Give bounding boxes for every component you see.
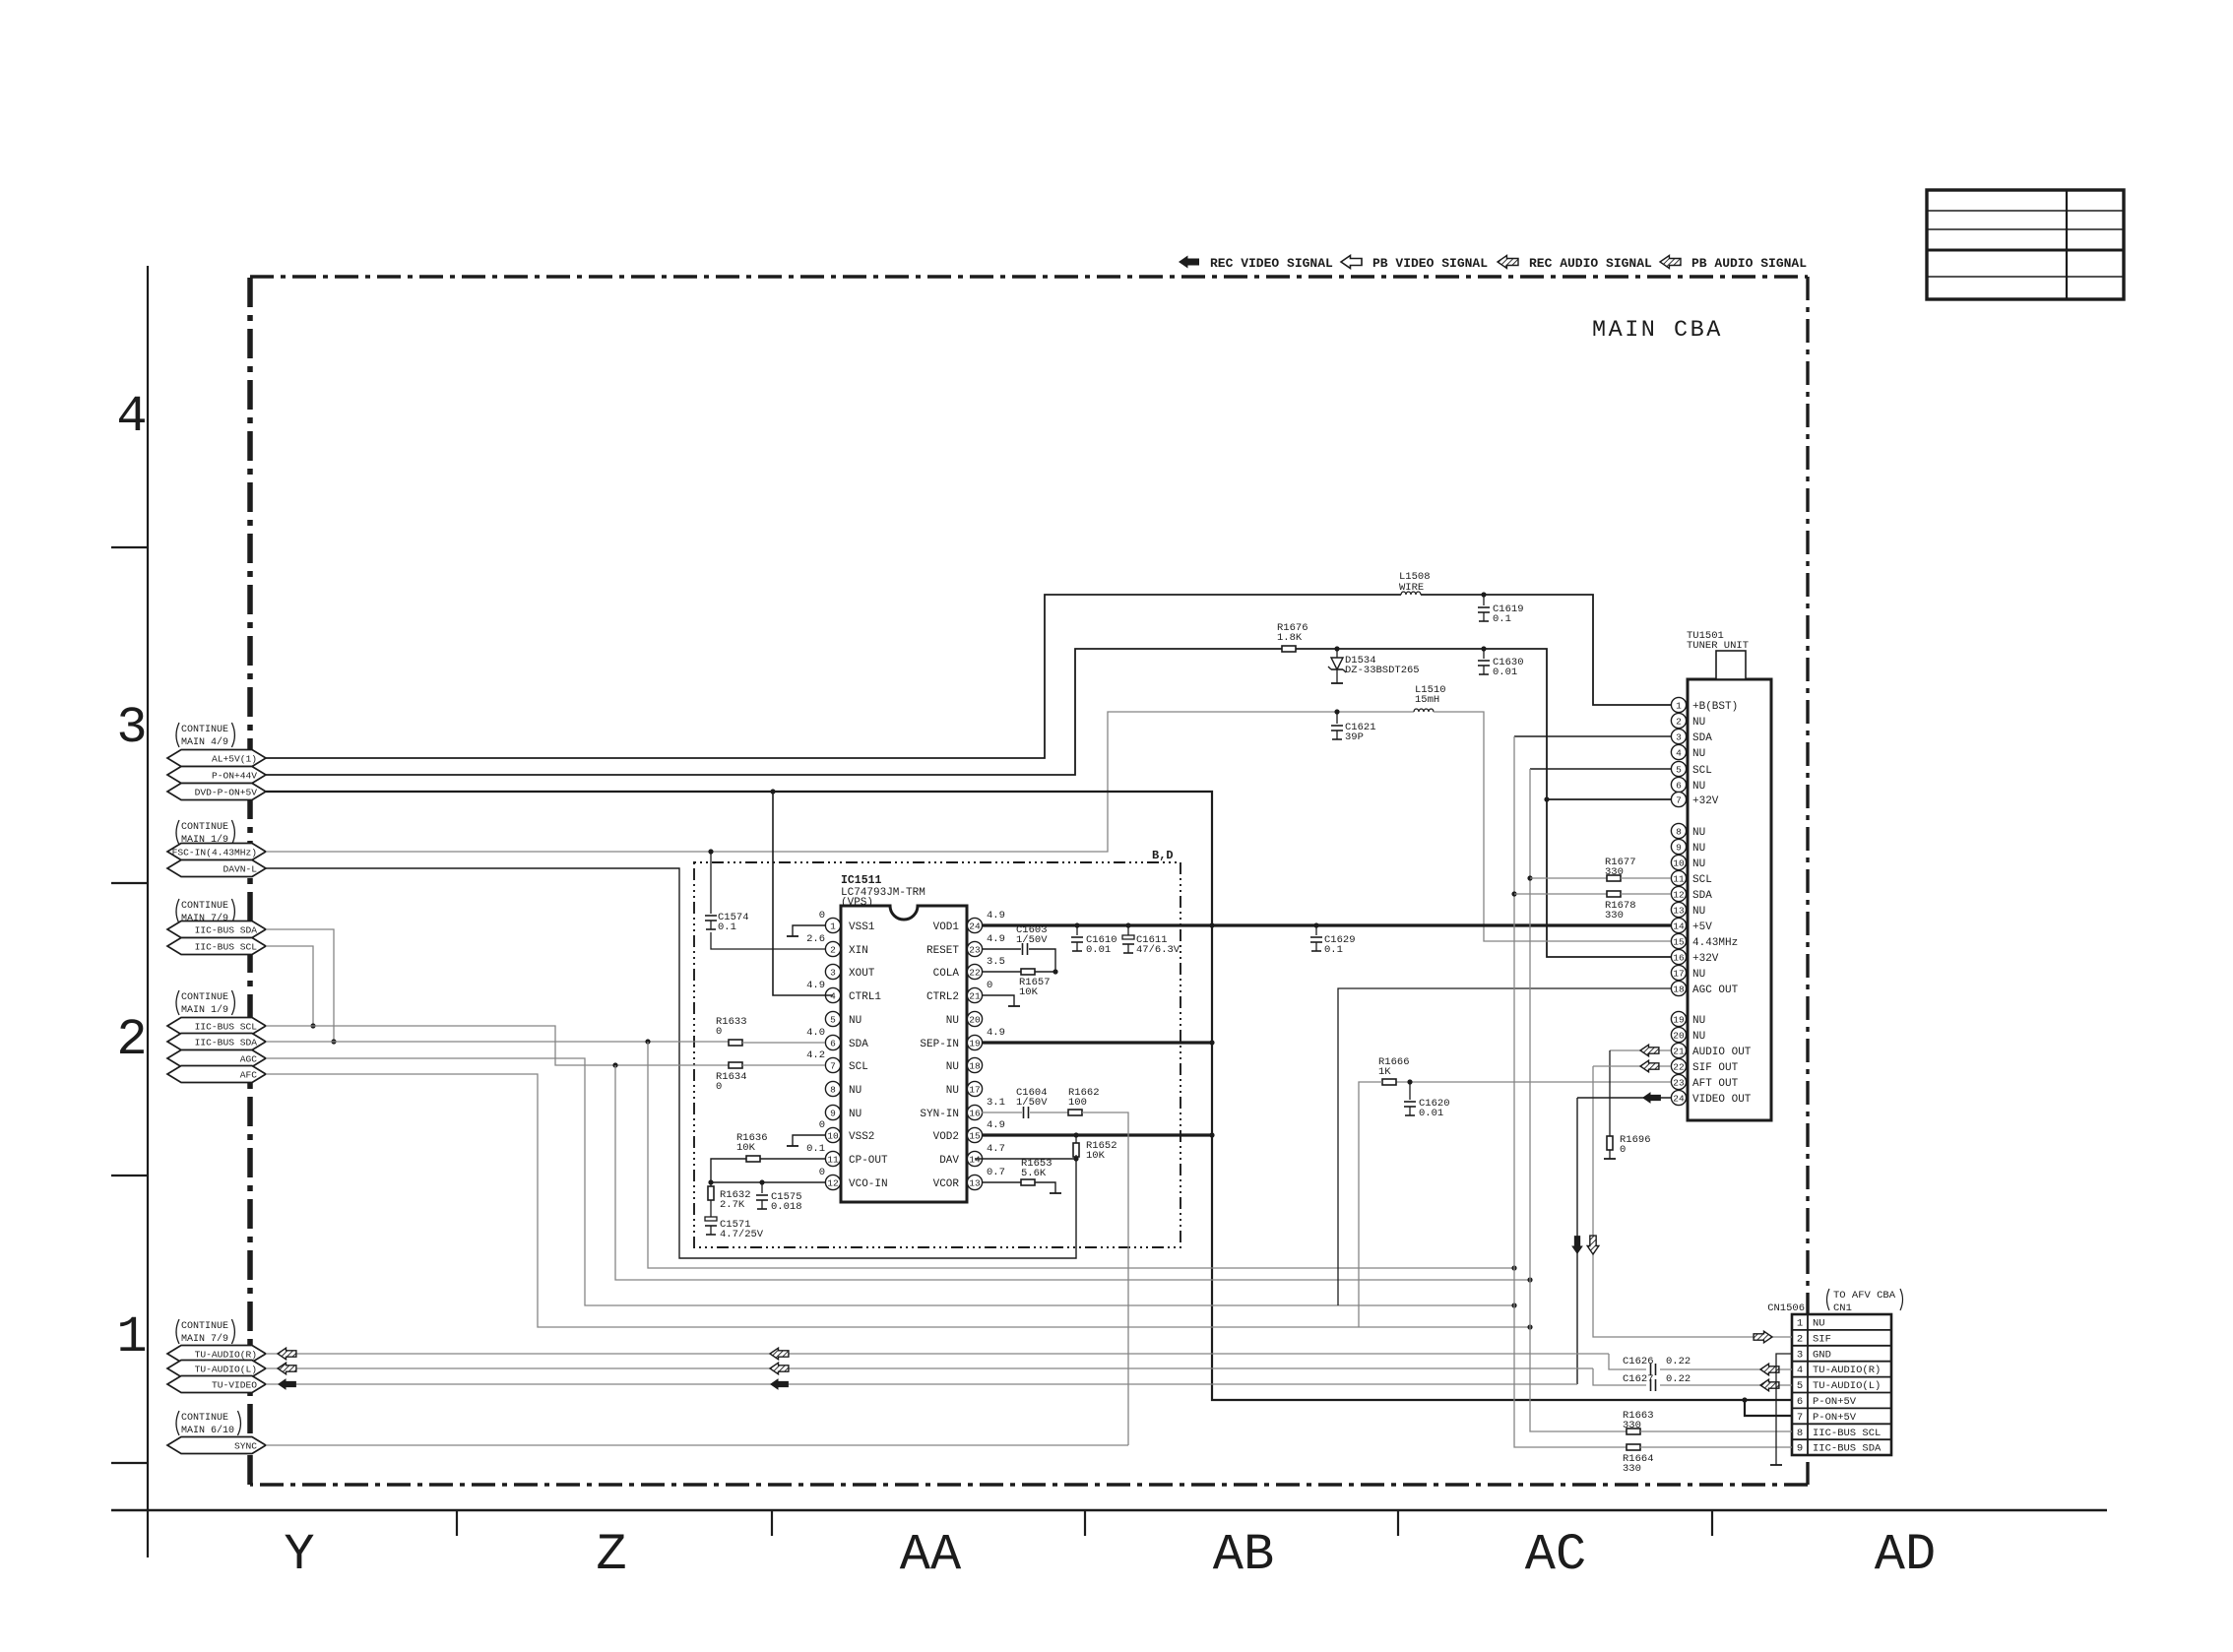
- svg-text:0.018: 0.018: [771, 1201, 802, 1213]
- connector CN1506 table: [1792, 1314, 1891, 1455]
- svg-text:4.7: 4.7: [987, 1143, 1005, 1155]
- svg-text:(VPS): (VPS): [841, 897, 873, 909]
- capacitor C1611: [1122, 935, 1134, 939]
- TU1501 pin 20 NU: [1680, 1034, 1687, 1036]
- ground below D1534: [1331, 682, 1343, 684]
- svg-text:NU: NU: [946, 1085, 959, 1097]
- resistor R1676: [1282, 646, 1296, 652]
- node C1575 junction: [759, 1179, 764, 1184]
- svg-text:14: 14: [969, 1154, 981, 1165]
- svg-text:AFC: AFC: [240, 1070, 258, 1081]
- svg-text:3: 3: [1676, 731, 1682, 742]
- svg-text:10: 10: [1673, 858, 1685, 868]
- svg-text:4.43MHz: 4.43MHz: [1692, 937, 1738, 949]
- svg-text:VSS2: VSS2: [849, 1131, 874, 1143]
- node SDA flag junction: [331, 1039, 336, 1044]
- wire IIC-BUS SCL upper flag link: [266, 946, 313, 1026]
- svg-text:CONTINUE: CONTINUE: [181, 1321, 228, 1332]
- wire C1603 to COLA node: [1029, 949, 1055, 972]
- svg-text:IIC-BUS SCL: IIC-BUS SCL: [195, 942, 258, 953]
- wire IIC-BUS SDA flag to IC pin 6: [266, 1041, 729, 1043]
- resistor R1696: [1609, 1050, 1611, 1137]
- svg-text:7: 7: [1797, 1412, 1803, 1424]
- flag DVD-P-ON+5V: [167, 784, 266, 800]
- wire SDA drop to bus: [648, 1042, 1514, 1268]
- svg-text:0.01: 0.01: [1086, 944, 1111, 956]
- TU1501 pin 3 SDA: [1680, 735, 1687, 737]
- wire L1510 to tuner 4.43MHz pin 15: [1434, 712, 1671, 941]
- svg-text:NU: NU: [1692, 748, 1705, 760]
- svg-text:4.9: 4.9: [987, 1119, 1005, 1131]
- svg-text:DZ-33BSDT265: DZ-33BSDT265: [1345, 665, 1420, 676]
- svg-text:9: 9: [830, 1108, 836, 1118]
- svg-text:AGC OUT: AGC OUT: [1692, 985, 1739, 996]
- svg-text:NU: NU: [1692, 906, 1705, 918]
- node +32V pins 7/16 junction: [1544, 796, 1549, 801]
- IC1511 pin 15 VOD2: [967, 1134, 975, 1136]
- TU1501 pin 13 NU: [1680, 909, 1687, 911]
- svg-text:MAIN CBA: MAIN CBA: [1592, 317, 1723, 344]
- node FSC branch C1574: [708, 849, 713, 854]
- node SCL drop junction: [612, 1062, 617, 1067]
- svg-text:10K: 10K: [736, 1142, 756, 1154]
- ground below R1696: [1604, 1158, 1616, 1160]
- wire C1619 stem: [1483, 595, 1485, 605]
- capacitor C1571: [705, 1217, 717, 1221]
- node D1534 junction: [1334, 646, 1339, 651]
- border tick row 4/3: [111, 546, 148, 548]
- svg-text:AB: AB: [1213, 1526, 1274, 1584]
- svg-text:SDA: SDA: [1692, 732, 1712, 744]
- svg-text:23: 23: [1673, 1077, 1685, 1088]
- wire SCL drop to bus: [615, 1065, 1530, 1280]
- wire tuner SDA pin 12 through R1678: [1514, 893, 1607, 895]
- wire AGC flag run: [266, 1058, 1514, 1305]
- node C1629: [1313, 922, 1318, 927]
- svg-text:VOD2: VOD2: [933, 1131, 959, 1143]
- svg-text:7: 7: [830, 1060, 836, 1071]
- svg-text:SCL: SCL: [849, 1061, 868, 1073]
- capacitor C1629: [1310, 936, 1322, 938]
- wire COLA pin 22 through R1657: [982, 971, 1021, 973]
- svg-text:CONTINUE: CONTINUE: [181, 992, 228, 1003]
- svg-text:15: 15: [969, 1130, 981, 1141]
- resistor R1666: [1382, 1079, 1396, 1085]
- svg-text:16: 16: [969, 1108, 981, 1118]
- svg-text:4.9: 4.9: [987, 933, 1005, 945]
- flag AGC: [167, 1050, 266, 1067]
- wire tuner SCL pin 11 through R1677: [1530, 877, 1607, 879]
- svg-text:2: 2: [830, 944, 836, 955]
- wire VCO-IN pin 12: [711, 1181, 825, 1183]
- svg-text:DAVN-L: DAVN-L: [223, 864, 257, 875]
- wire SYNC flag line: [266, 1444, 1128, 1446]
- svg-text:AC: AC: [1525, 1526, 1586, 1584]
- svg-text:2.6: 2.6: [806, 933, 825, 945]
- svg-text:1.8K: 1.8K: [1277, 632, 1303, 644]
- wire AFC flag run: [266, 1074, 1530, 1327]
- svg-text:MAIN 6/10: MAIN 6/10: [181, 1425, 234, 1436]
- ruler tick: [1711, 1510, 1713, 1536]
- TU1501 pin 17 NU: [1680, 972, 1687, 974]
- svg-text:0: 0: [1620, 1144, 1626, 1156]
- wire VIDEO OUT pin 24: [1577, 1097, 1671, 1099]
- MAIN CBA board dash-dot border: [250, 275, 1808, 278]
- svg-text:47/6.3V: 47/6.3V: [1136, 944, 1180, 956]
- svg-text:NU: NU: [1692, 827, 1705, 839]
- svg-text:C1626: C1626: [1623, 1356, 1654, 1367]
- svg-text:17: 17: [1673, 968, 1684, 979]
- svg-text:4: 4: [1797, 1365, 1803, 1376]
- capacitor C1575: [756, 1194, 768, 1196]
- svg-text:2: 2: [1797, 1333, 1803, 1345]
- svg-text:24: 24: [1673, 1093, 1685, 1104]
- TU1501 pin 2 NU: [1680, 720, 1687, 722]
- svg-text:AD: AD: [1875, 1526, 1936, 1584]
- wire SYN-IN pin 16: [982, 1112, 1022, 1113]
- svg-text:12: 12: [827, 1177, 839, 1188]
- svg-text:0: 0: [819, 1167, 825, 1178]
- svg-text:SCL: SCL: [1692, 765, 1712, 777]
- svg-text:AUDIO OUT: AUDIO OUT: [1692, 1047, 1752, 1058]
- svg-text:330: 330: [1605, 910, 1624, 921]
- svg-text:VOD1: VOD1: [933, 921, 960, 933]
- svg-text:RESET: RESET: [926, 945, 959, 957]
- svg-text:Y: Y: [284, 1526, 314, 1584]
- ground at CTRL2: [1008, 1005, 1020, 1007]
- wire +32V to pin 16: [1547, 799, 1671, 957]
- TU1501 pin 1 +B(BST): [1680, 704, 1687, 706]
- svg-text:6: 6: [1797, 1396, 1803, 1408]
- capacitor C1603: [1022, 943, 1024, 955]
- resistor R1678: [1607, 891, 1621, 897]
- flag P-ON+44V: [167, 767, 266, 784]
- svg-text:SIF: SIF: [1813, 1333, 1831, 1345]
- svg-text:NU: NU: [1692, 1015, 1705, 1027]
- legend PB AUDIO SIGNAL: [1660, 256, 1681, 269]
- svg-text:NU: NU: [1692, 781, 1705, 793]
- svg-text:330: 330: [1605, 866, 1624, 878]
- op-amp/IC U IC1511 body: [841, 906, 967, 1202]
- IC1511 pin 3 XOUT: [833, 971, 841, 973]
- svg-text:IIC-BUS SCL: IIC-BUS SCL: [1813, 1428, 1881, 1439]
- IC1511 pin 5 NU: [833, 1018, 841, 1020]
- diode D1534 zener: [1336, 649, 1338, 658]
- resistor R1634: [729, 1062, 742, 1068]
- svg-text:5: 5: [1676, 764, 1682, 775]
- svg-text:C1627: C1627: [1623, 1373, 1654, 1385]
- IC1511 pin 22 COLA: [967, 971, 975, 973]
- node C1610: [1074, 922, 1079, 927]
- svg-text:10K: 10K: [1019, 986, 1039, 998]
- svg-text:CTRL2: CTRL2: [926, 991, 959, 1003]
- svg-text:5: 5: [830, 1014, 836, 1025]
- TU1501 top tab: [1716, 651, 1746, 679]
- TU1501 pin 12 SDA: [1680, 893, 1687, 895]
- wire TU-AUDIO(R): [266, 1353, 1609, 1355]
- svg-text:1/50V: 1/50V: [1016, 1097, 1048, 1109]
- flag IIC-BUS SCL lower: [167, 1018, 266, 1035]
- TU1501 pin 11 SCL: [1680, 877, 1687, 879]
- svg-text:3.1: 3.1: [987, 1097, 1005, 1109]
- svg-text:VSS1: VSS1: [849, 921, 875, 933]
- svg-text:23: 23: [969, 944, 981, 955]
- legend REC AUDIO SIGNAL: [1498, 256, 1518, 269]
- svg-text:1: 1: [830, 921, 836, 931]
- svg-text:10K: 10K: [1086, 1150, 1106, 1162]
- capacitor C1620: [1404, 1101, 1416, 1103]
- svg-text:22: 22: [969, 967, 981, 978]
- IC1511 pin 4 CTRL1: [833, 994, 841, 996]
- svg-text:NU: NU: [946, 1061, 959, 1073]
- border tick row 3/2: [111, 882, 148, 884]
- legend REC VIDEO SIGNAL: [1179, 256, 1199, 269]
- wire branch to CTRL1 pin 4: [773, 792, 833, 995]
- ruler tick: [456, 1510, 458, 1536]
- wire IIC-BUS SDA upper flag link: [266, 929, 334, 1042]
- svg-text:4.9: 4.9: [987, 1027, 1005, 1039]
- svg-text:CN1: CN1: [1833, 1303, 1852, 1314]
- svg-text:20: 20: [969, 1014, 981, 1025]
- svg-text:12: 12: [1673, 889, 1685, 900]
- flag FSC-IN(4.43MHz): [167, 844, 266, 860]
- svg-text:0: 0: [716, 1081, 722, 1093]
- wire SEP-IN pin 19: [982, 1041, 1212, 1044]
- wire tuner SCL riser: [1530, 768, 1671, 770]
- svg-text:0.22: 0.22: [1666, 1356, 1691, 1367]
- svg-text:+32V: +32V: [1692, 795, 1719, 807]
- wire AL+5V(1) to L1508: [266, 595, 1401, 758]
- node P-ON+5V split: [1742, 1397, 1747, 1402]
- ground at CN1506 GND: [1770, 1464, 1782, 1466]
- wire AUDIO OUT pin 21: [1610, 1049, 1671, 1051]
- svg-text:39P: 39P: [1345, 731, 1364, 743]
- TU1501 pin 21 AUDIO OUT: [1680, 1049, 1687, 1051]
- flag IIC-BUS SDA upper: [167, 921, 266, 938]
- svg-text:6: 6: [830, 1038, 836, 1048]
- svg-text:DAV: DAV: [939, 1155, 959, 1167]
- svg-text:18: 18: [1673, 984, 1685, 994]
- svg-text:IIC-BUS SCL: IIC-BUS SCL: [195, 1022, 258, 1033]
- svg-text:NU: NU: [1692, 969, 1705, 981]
- node SDA drop junction: [645, 1039, 650, 1044]
- node R1652 top: [1073, 1132, 1078, 1137]
- svg-text:0.1: 0.1: [1324, 944, 1343, 956]
- resistor R1677: [1607, 875, 1621, 881]
- svg-text:4.9: 4.9: [987, 910, 1005, 921]
- capacitor C1604: [1023, 1107, 1025, 1118]
- sheet left border line: [147, 266, 149, 1557]
- flag TU-AUDIO(L): [167, 1361, 266, 1377]
- svg-text:SCL: SCL: [1692, 874, 1712, 886]
- svg-text:NU: NU: [1813, 1318, 1825, 1330]
- svg-text:330: 330: [1623, 1463, 1641, 1475]
- IC1511 pin 24 VOD1: [967, 924, 975, 926]
- wire DAV pin 14: [975, 1158, 1076, 1160]
- TU1501 pin 16 +32V: [1680, 956, 1687, 958]
- node +5V at VDD1: [1209, 922, 1214, 927]
- svg-text:3.5: 3.5: [987, 956, 1005, 968]
- ruler tick: [1084, 1510, 1086, 1536]
- wire CP-OUT pin 11 through R1636: [760, 1158, 825, 1160]
- svg-text:2: 2: [1676, 716, 1682, 727]
- svg-text:SEP-IN: SEP-IN: [920, 1039, 959, 1050]
- node VCO-IN junction: [708, 1179, 713, 1184]
- IC1511 pin 13 VCOR: [967, 1181, 975, 1183]
- svg-text:9: 9: [1676, 842, 1682, 853]
- svg-text:IIC-BUS SDA: IIC-BUS SDA: [1813, 1443, 1882, 1455]
- svg-text:TUNER UNIT: TUNER UNIT: [1687, 640, 1749, 652]
- IC1511 pin 16 SYN-IN: [967, 1112, 975, 1113]
- svg-text:VCOR: VCOR: [933, 1178, 960, 1190]
- svg-text:GND: GND: [1813, 1349, 1831, 1361]
- MAIN CBA left border (thick dash-dot): [247, 277, 253, 1485]
- svg-text:1K: 1K: [1378, 1066, 1391, 1078]
- svg-text:8: 8: [1797, 1428, 1803, 1439]
- svg-text:NU: NU: [1692, 1031, 1705, 1043]
- svg-text:0.01: 0.01: [1493, 667, 1517, 678]
- IC1511 pin 9 NU: [833, 1112, 841, 1113]
- wire IIC-BUS SCL flag run: [266, 1026, 729, 1065]
- wire DAVN-L to DAV pin 14: [266, 868, 1076, 1258]
- svg-text:3: 3: [1797, 1349, 1803, 1361]
- node SCL bus to riser: [1527, 1277, 1532, 1282]
- capacitor C1574: [705, 915, 717, 917]
- svg-text:4.9: 4.9: [806, 980, 825, 991]
- svg-text:IIC-BUS SDA: IIC-BUS SDA: [195, 925, 258, 936]
- svg-text:CP-OUT: CP-OUT: [849, 1155, 888, 1167]
- svg-text:22: 22: [1673, 1061, 1685, 1072]
- IC1511 pin 11 CP-OUT: [833, 1158, 841, 1160]
- svg-text:0.1: 0.1: [1493, 613, 1511, 625]
- svg-text:19: 19: [1673, 1014, 1685, 1025]
- svg-text:NU: NU: [849, 1109, 861, 1120]
- SIF into CN arrow: [1754, 1331, 1772, 1343]
- svg-text:SDA: SDA: [1692, 890, 1712, 902]
- TU1501 pin 18 AGC OUT: [1680, 987, 1687, 989]
- capacitor C1610: [1071, 936, 1083, 938]
- svg-text:+32V: +32V: [1692, 953, 1719, 965]
- svg-text:CONTINUE: CONTINUE: [181, 1413, 228, 1424]
- TU1501 pin 7 +32V: [1680, 798, 1687, 800]
- svg-text:Z: Z: [596, 1526, 626, 1584]
- svg-text:XIN: XIN: [849, 945, 868, 957]
- flag IIC-BUS SCL upper: [167, 938, 266, 955]
- svg-text:21: 21: [1673, 1046, 1685, 1056]
- node SCL pin 11 junction: [1527, 875, 1532, 880]
- svg-text:CTRL1: CTRL1: [849, 991, 881, 1003]
- wire CN row3 GND: [1776, 1354, 1792, 1465]
- resistor R1657: [1021, 969, 1035, 975]
- svg-text:REC AUDIO SIGNAL: REC AUDIO SIGNAL: [1529, 256, 1652, 271]
- svg-text:8: 8: [830, 1084, 836, 1095]
- IC1511 pin 10 VSS2: [833, 1134, 841, 1136]
- svg-text:100: 100: [1068, 1097, 1087, 1109]
- svg-text:2: 2: [116, 1011, 147, 1069]
- svg-text:TU-VIDEO: TU-VIDEO: [212, 1380, 257, 1391]
- resistor R1653: [1021, 1179, 1035, 1185]
- node C1620 junction: [1407, 1079, 1412, 1084]
- wire AFT OUT pin 23 through R1666: [1396, 1081, 1671, 1083]
- svg-text:REC VIDEO SIGNAL: REC VIDEO SIGNAL: [1210, 256, 1333, 271]
- wire R1662 to SYNC riser: [1082, 1112, 1128, 1445]
- IC1511 pin 6 SDA: [833, 1042, 841, 1044]
- svg-text:14: 14: [1673, 921, 1685, 931]
- node SCL flag junction: [310, 1023, 315, 1028]
- svg-text:VIDEO OUT: VIDEO OUT: [1692, 1094, 1752, 1106]
- wire TU-VIDEO: [266, 1383, 1577, 1385]
- svg-text:19: 19: [969, 1038, 981, 1048]
- TU1501 pin 23 AFT OUT: [1680, 1081, 1687, 1083]
- flag DAVN-L: [167, 860, 266, 877]
- svg-text:0.1: 0.1: [806, 1143, 825, 1155]
- wire XIN pin 2: [711, 932, 825, 949]
- VIDEO down arrow: [1571, 1236, 1583, 1254]
- wire FSC-IN to L1510: [266, 712, 1414, 852]
- TU1501 pin 24 VIDEO OUT: [1680, 1097, 1687, 1099]
- svg-text:IIC-BUS SDA: IIC-BUS SDA: [195, 1038, 258, 1048]
- ground at VSS1: [787, 935, 798, 937]
- svg-text:1/50V: 1/50V: [1016, 934, 1048, 946]
- node C1630 junction: [1481, 646, 1486, 651]
- IC1511 pin 20 NU: [967, 1018, 975, 1020]
- IC1511 pin 18 NU: [967, 1064, 975, 1066]
- svg-text:+B(BST): +B(BST): [1692, 701, 1738, 713]
- svg-text:TU-AUDIO(L): TU-AUDIO(L): [1813, 1380, 1881, 1392]
- TU1501 pin 14 +5V: [1680, 924, 1687, 926]
- svg-text:1: 1: [1676, 700, 1682, 711]
- wire AGC OUT pin 18: [1338, 988, 1671, 1305]
- border tick row 1 bottom: [111, 1462, 148, 1464]
- wire P-ON+44V to R1676: [266, 649, 1282, 775]
- svg-text:CONTINUE: CONTINUE: [181, 822, 228, 833]
- node C1611: [1125, 922, 1130, 927]
- svg-text:3: 3: [830, 967, 836, 978]
- node +B / C1619 junction: [1481, 592, 1486, 597]
- svg-text:TO AFV CBA: TO AFV CBA: [1833, 1290, 1896, 1302]
- resistor R1632: [710, 1182, 712, 1188]
- TU1501 pin 5 SCL: [1680, 768, 1687, 770]
- svg-text:13: 13: [1673, 905, 1685, 916]
- B,D dashed sub-board outline: [694, 862, 1180, 1247]
- svg-text:CN1506: CN1506: [1767, 1303, 1805, 1314]
- IC1511 pin 12 VCO-IN: [833, 1181, 841, 1183]
- svg-text:AA: AA: [900, 1526, 962, 1584]
- TU1501 pin 4 NU: [1680, 751, 1687, 753]
- svg-text:TU-AUDIO(R): TU-AUDIO(R): [195, 1350, 257, 1361]
- svg-text:SYN-IN: SYN-IN: [920, 1109, 959, 1120]
- wire VDD1 pin 24 to tuner +5V pin 14: [982, 923, 1671, 926]
- TU1501 pin 15 4.43MHz: [1680, 940, 1687, 942]
- inductor L1510: [1414, 709, 1434, 712]
- svg-text:24: 24: [969, 921, 981, 931]
- svg-text:PB AUDIO SIGNAL: PB AUDIO SIGNAL: [1691, 256, 1807, 271]
- svg-text:21: 21: [969, 990, 981, 1001]
- node SDA bus to riser: [1511, 1265, 1516, 1270]
- svg-text:WIRE: WIRE: [1399, 582, 1424, 594]
- capacitor C1627: [1650, 1379, 1652, 1391]
- svg-text:3: 3: [116, 699, 147, 757]
- wire tuner SDA riser: [1514, 735, 1671, 737]
- border tick row 2/1: [111, 1175, 148, 1176]
- svg-text:AGC: AGC: [240, 1054, 258, 1065]
- svg-text:1: 1: [1797, 1318, 1803, 1330]
- svg-text:CONTINUE: CONTINUE: [181, 901, 228, 912]
- TU1501 pin 19 NU: [1680, 1018, 1687, 1020]
- svg-text:+5V: +5V: [1692, 921, 1712, 933]
- svg-text:SYNC: SYNC: [234, 1441, 257, 1452]
- tuner unit TU1501 body: [1688, 679, 1771, 1120]
